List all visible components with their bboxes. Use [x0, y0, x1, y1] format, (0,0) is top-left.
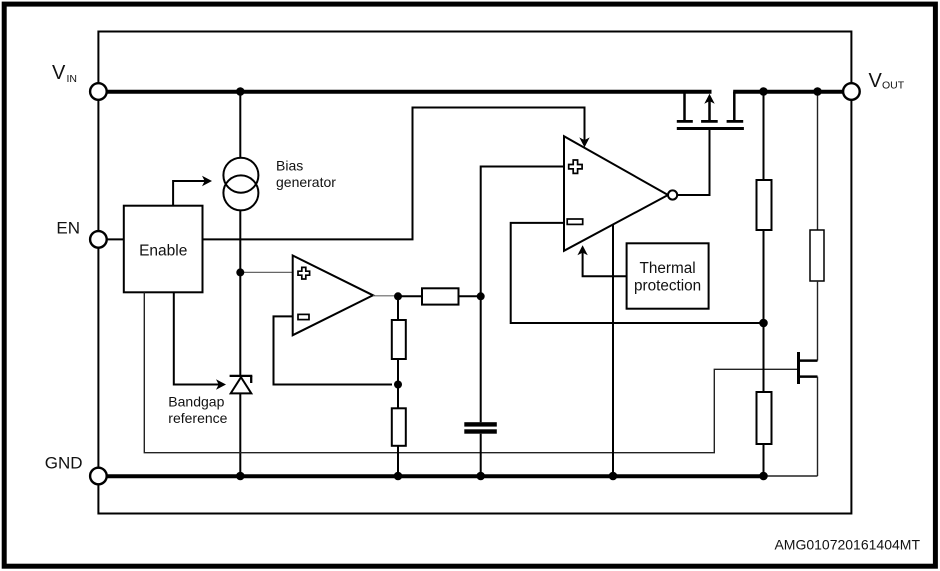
pin EN [90, 231, 107, 248]
plus marker small amp [298, 267, 310, 279]
wire opamp plus input stub (gray) [240, 271, 292, 273]
wire VOUT bus right segment [733, 90, 843, 94]
divider chain 1 x=763.5 [763, 92, 765, 181]
svg-text:reference: reference [168, 410, 227, 426]
output bubble [668, 190, 677, 199]
tap drain from rail [683, 92, 686, 121]
svg-text:AMG010720161404MT: AMG010720161404MT [774, 537, 920, 553]
pin GND [90, 468, 107, 485]
svg-text:Thermal: Thermal [640, 260, 696, 277]
arrow source tap [701, 120, 718, 123]
wire output node to horizontal resistor to cap node [398, 295, 422, 297]
svg-text:OUT: OUT [882, 80, 905, 92]
Enable block [124, 206, 203, 293]
wire small amp output stub (gray) [373, 295, 394, 297]
svg-text:Enable: Enable [139, 243, 187, 260]
bandgap zener diode [230, 375, 253, 377]
svg-text:protection: protection [634, 277, 701, 294]
bias generator current source circles [223, 158, 258, 193]
wire Enable output to big amp top (via corners) [203, 108, 585, 240]
pin VOUT [843, 83, 860, 100]
resistor R4 [392, 320, 406, 359]
wire amp tail to GND [612, 225, 614, 476]
gate bar [677, 127, 744, 130]
svg-text:Bias: Bias [276, 158, 303, 174]
svg-text:V: V [869, 70, 883, 92]
node bias chain vertical (VIN to bias gen, opamp+, zener, GND) [239, 92, 241, 158]
big op-amp U2 [564, 136, 668, 251]
capacitor C1 plates [464, 422, 497, 426]
plus marker big amp [569, 160, 582, 173]
wire big amp output to PMOS gate [677, 130, 709, 195]
svg-text:V: V [52, 62, 66, 84]
resistor horizontal R3 [422, 288, 459, 304]
NMOS pulldown Q2 [797, 352, 800, 384]
node mid divider chain x=398 [397, 296, 399, 320]
minus marker small amp [298, 314, 309, 319]
svg-text:generator: generator [276, 174, 336, 190]
wire GND bus [107, 474, 764, 478]
thermal protection box [627, 243, 709, 308]
tap to out rail [733, 92, 736, 121]
wire small amp minus input + feedback [274, 316, 393, 384]
wire big amp minus feedback path [511, 223, 764, 323]
svg-text:IN: IN [67, 73, 78, 85]
resistor R6 [810, 230, 824, 281]
junction dots [236, 87, 245, 96]
wire cap chain x=480.7 (big amp + input down to capacitor) [481, 167, 564, 423]
wire Enable to bandgap arrow [174, 292, 220, 384]
resistor R5 [392, 408, 406, 446]
inner boundary box [98, 32, 851, 514]
resistor R2 [757, 392, 772, 444]
svg-text:Bandgap: Bandgap [168, 393, 224, 409]
wire VIN bus left segment [107, 90, 712, 94]
chain 2 x=817.5 [817, 92, 819, 231]
svg-text:GND: GND [45, 454, 83, 473]
resistor R1 [757, 180, 772, 230]
svg-text:EN: EN [56, 219, 80, 238]
arrow Enable to bias generator [173, 181, 205, 206]
wire EN pin to Enable box [107, 238, 124, 240]
wire Enable to NMOS gate (long path) [144, 292, 797, 452]
minus marker big amp [567, 219, 583, 224]
arrow thermal to big amp bottom [583, 252, 627, 276]
small op-amp U1 [293, 256, 373, 336]
pin VIN [90, 83, 107, 100]
arrow into big amp top edge [579, 137, 589, 147]
